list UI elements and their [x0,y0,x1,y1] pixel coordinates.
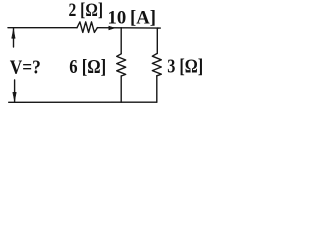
wire 6-ohm bottom lead [120,76,122,102]
wire top-right segment [121,27,158,29]
resistor 2[ohm] (horizontal zigzag) [77,22,97,33]
wire bottom (full run) [9,101,157,103]
current arrowhead 10[A] [109,26,115,30]
svg-text:2 [Ω]: 2 [Ω] [69,0,104,21]
svg-text:V=?: V=? [10,57,41,79]
node T-junction of 6-ohm branch on top wire [120,28,122,54]
svg-text:10 [A]: 10 [A] [108,7,157,28]
wire top-middle segment [97,27,121,29]
wire 3-ohm bottom lead [156,76,158,102]
resistor 3[ohm] (vertical zigzag) [152,54,161,76]
voltage arrow lower (points down to bottom wire) [13,80,16,102]
node top-right corner to 3-ohm branch [157,28,160,53]
wire top-left segment [8,27,77,29]
resistor 6[ohm] (vertical zigzag) [117,54,126,76]
svg-text:6 [Ω]: 6 [Ω] [69,56,106,78]
svg-text:3 [Ω]: 3 [Ω] [167,56,203,78]
voltage arrow upper (points up to top wire) [12,28,15,47]
